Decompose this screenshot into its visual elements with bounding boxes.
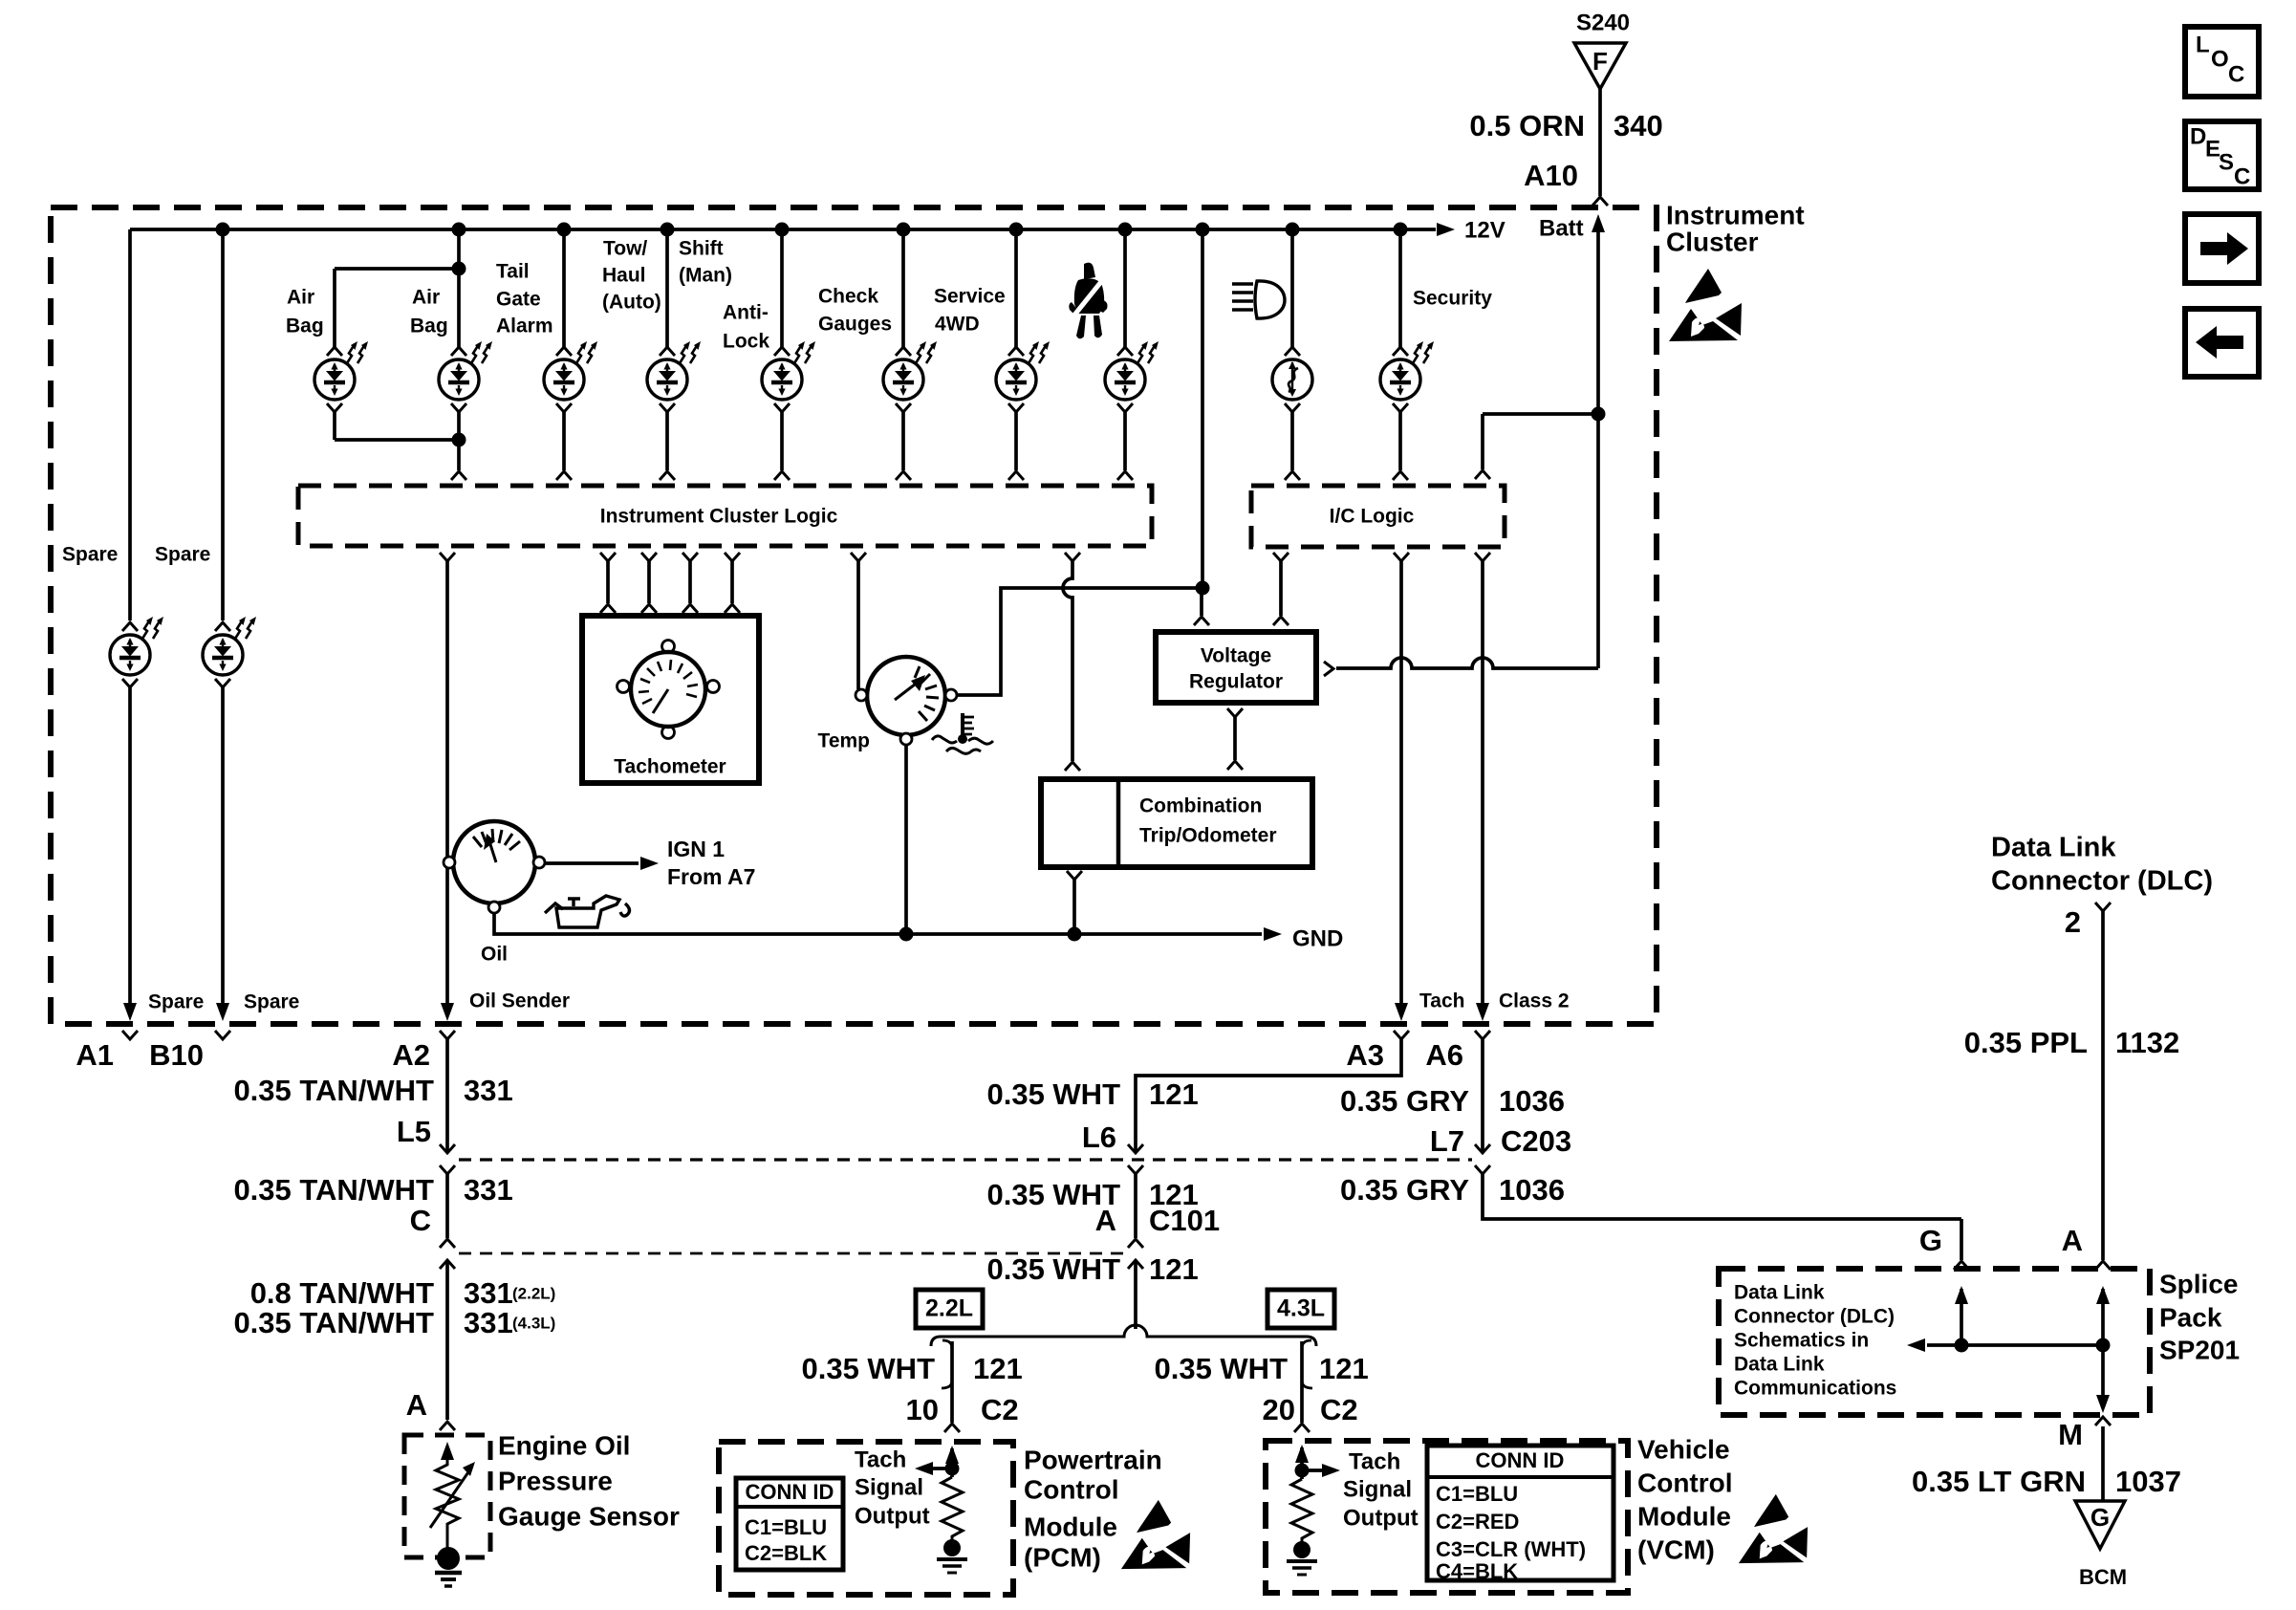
indicator LED Air Bag 2 (439, 359, 479, 400)
wire oil gauge to IGN 1 (545, 861, 639, 865)
connector chevron L7 at C203 (1475, 1144, 1490, 1153)
svg-text:CONN ID: CONN ID (746, 1480, 834, 1504)
indicator LED Security (1380, 359, 1420, 400)
arrow PCM entry (945, 1446, 959, 1464)
connector chevron splice G (1954, 1261, 1969, 1270)
svg-text:Regulator: Regulator (1189, 671, 1283, 693)
svg-text:4.3L: 4.3L (1277, 1295, 1325, 1322)
svg-text:Spare: Spare (155, 544, 210, 566)
wire High Beam lower (1290, 412, 1294, 470)
junction dot bus x=698 (661, 223, 675, 237)
svg-text:C1=BLU: C1=BLU (1436, 1482, 1518, 1506)
wire combination feed with hop (1063, 561, 1072, 761)
connector chevron combination feed bottom (1065, 762, 1080, 771)
svg-text:Instrument Cluster Logic: Instrument Cluster Logic (600, 506, 838, 528)
arrow into Batt pin (1592, 214, 1605, 232)
wire Anti-Lock upper (780, 229, 784, 347)
junction dot bus x=945 (897, 223, 911, 237)
legend box LOC (2185, 27, 2259, 97)
svg-text:Anti-: Anti- (723, 302, 769, 324)
indicator LED Tow/Haul (647, 359, 687, 400)
resistor PCM (942, 1477, 963, 1541)
junction dot VR feed (1196, 581, 1210, 596)
wire Check Gauges lower (901, 412, 905, 470)
junction dot splice A (2096, 1338, 2111, 1353)
wire I/C logic to VR (1279, 561, 1283, 616)
svg-text:(4.3L): (4.3L) (512, 1314, 555, 1332)
icon fasten seat belt (1069, 263, 1107, 339)
connector chevron M (2095, 1417, 2111, 1425)
arrow splice to DLC schematics (1907, 1338, 1925, 1352)
wire 0.35 PPL 1132 (2101, 911, 2105, 1260)
wire VCM tach branch (1300, 1341, 1304, 1423)
wire tach output (1399, 561, 1403, 1004)
junction dot PCM tach signal (945, 1462, 960, 1476)
connector chevron tach stub 636 top (600, 553, 616, 561)
arrow tach exit A3 (1395, 1003, 1408, 1021)
connector chevron combination ground stub (1067, 871, 1082, 880)
wire Fasten Belts lower (1123, 412, 1127, 470)
tachometer gauge (617, 641, 720, 739)
arrow VCM entry (1295, 1445, 1309, 1463)
connector C101 dashed line (459, 1252, 1126, 1255)
svg-text:Module: Module (1024, 1512, 1117, 1541)
svg-text:(VCM): (VCM) (1637, 1534, 1715, 1564)
svg-text:C4=BLK: C4=BLK (1436, 1559, 1518, 1583)
wire 0.35 LT GRN 1037 (2101, 1426, 2105, 1501)
wire Fasten Belts upper (1123, 229, 1127, 347)
svg-text:Batt: Batt (1539, 215, 1584, 241)
arrow IGN 1 (640, 857, 659, 870)
svg-text:20: 20 (1263, 1393, 1295, 1426)
svg-text:B10: B10 (149, 1038, 204, 1072)
wire TAN/WHT to sensor (445, 1260, 449, 1420)
wire temp gauge feed (856, 561, 860, 689)
svg-text:Pressure: Pressure (498, 1466, 613, 1495)
splice pack SP201 dashed box (1719, 1269, 2150, 1415)
svg-text:Oil Sender: Oil Sender (469, 990, 570, 1012)
wire temp gauge to ground rail (904, 745, 908, 934)
svg-text:Connector (DLC): Connector (DLC) (1734, 1306, 1895, 1328)
wire Tow/Haul lower (665, 412, 669, 470)
connector chevron C at C101 (440, 1239, 455, 1248)
svg-text:I/C Logic: I/C Logic (1330, 506, 1415, 528)
legend box DESC (2185, 121, 2259, 189)
svg-text:Temp: Temp (818, 730, 870, 752)
wire tach stub 636 (606, 561, 610, 603)
wire tach stub 722 (688, 561, 692, 603)
svg-text:1132: 1132 (2115, 1026, 2179, 1059)
svg-text:4WD: 4WD (935, 314, 980, 336)
svg-text:A: A (406, 1388, 427, 1422)
svg-text:331: 331 (464, 1074, 513, 1107)
svg-text:Control: Control (1024, 1474, 1119, 1504)
connector chevron oil sender top (440, 553, 455, 561)
svg-text:1036: 1036 (1499, 1084, 1565, 1118)
svg-text:0.35 WHT: 0.35 WHT (1154, 1352, 1288, 1385)
svg-text:C101: C101 (1149, 1204, 1220, 1237)
svg-text:(2.2L): (2.2L) (512, 1284, 555, 1302)
svg-text:Bag: Bag (286, 315, 324, 337)
icon oil can (545, 896, 629, 927)
wire Tail Gate Alarm lower (562, 412, 566, 470)
junction dot bus x=480 (452, 223, 466, 237)
wire Service 4WD lower (1014, 412, 1018, 470)
svg-text:C3=CLR (WHT): C3=CLR (WHT) (1436, 1537, 1586, 1561)
wire Anti-Lock lower (780, 412, 784, 470)
connector chevron VR top left (1194, 617, 1209, 625)
svg-text:Vehicle: Vehicle (1637, 1434, 1730, 1464)
connector chevron DLC pin 2 (2095, 903, 2111, 911)
wire 0.35 GRY 1036 to splice pack (1483, 1174, 1961, 1219)
svg-text:L: L (2196, 32, 2210, 57)
svg-text:Alarm: Alarm (496, 315, 553, 337)
arrow splice M out (2096, 1395, 2110, 1413)
svg-text:331: 331 (464, 1306, 513, 1339)
svg-text:0.35 TAN/WHT: 0.35 TAN/WHT (233, 1074, 434, 1107)
svg-text:Security: Security (1413, 288, 1492, 310)
svg-text:2: 2 (2065, 905, 2081, 939)
icon coolant thermometer (932, 713, 993, 753)
combination trip/odometer box (1041, 779, 1312, 867)
svg-text:CONN ID: CONN ID (1476, 1448, 1565, 1472)
svg-text:G: G (1919, 1224, 1942, 1257)
svg-text:M: M (2058, 1418, 2083, 1451)
wire Air Bag 2 lower (457, 412, 461, 470)
tag 4.3L (1267, 1290, 1334, 1328)
connector chevron VR top right (1273, 617, 1289, 625)
svg-text:Air: Air (412, 287, 440, 309)
svg-text:GND: GND (1292, 925, 1343, 951)
variable resistor oil pressure sensor (436, 1460, 459, 1549)
engine oil pressure gauge sensor dashed box (404, 1435, 490, 1557)
svg-text:Output: Output (855, 1503, 930, 1529)
connector chevron I/C bottom left (1273, 553, 1289, 561)
junction dot bus x=1177 (1118, 223, 1133, 237)
svg-text:L5: L5 (397, 1115, 431, 1148)
svg-text:L7: L7 (1430, 1124, 1464, 1158)
svg-text:331: 331 (464, 1173, 513, 1207)
svg-text:Connector (DLC): Connector (DLC) (1991, 866, 2213, 897)
svg-text:0.35 WHT: 0.35 WHT (801, 1352, 935, 1385)
wire VCM tach signal (1302, 1469, 1323, 1472)
svg-text:Control: Control (1637, 1468, 1733, 1497)
svg-text:C2: C2 (1320, 1393, 1358, 1426)
wire Tow/Haul upper (665, 229, 669, 347)
svg-text:0.35 LT GRN: 0.35 LT GRN (1912, 1465, 2086, 1498)
wire spare 1 lower (128, 687, 132, 1004)
indicator LED Air Bag 1 (314, 359, 355, 400)
svg-text:12V: 12V (1464, 217, 1505, 243)
wire VCM internal (1300, 1447, 1304, 1479)
svg-text:Shift: Shift (679, 238, 724, 260)
legend box arrow left (2185, 309, 2259, 377)
svg-text:0.5 ORN: 0.5 ORN (1469, 109, 1585, 142)
svg-text:A: A (2062, 1224, 2083, 1257)
arrow splice A in (2096, 1286, 2110, 1304)
junction dot air bag top (452, 262, 466, 276)
connector chevron class2 out top (1475, 553, 1490, 561)
junction dot bus x=1352 (1286, 223, 1300, 237)
connector C203 dashed line (459, 1158, 1472, 1161)
wire Security upper (1398, 229, 1402, 347)
ground VCM (1293, 1541, 1310, 1558)
svg-text:Oil: Oil (481, 944, 508, 966)
wire splice G internal (1960, 1289, 1963, 1345)
svg-text:0.35 TAN/WHT: 0.35 TAN/WHT (233, 1173, 434, 1207)
svg-text:SP201: SP201 (2159, 1335, 2240, 1364)
arrow tach signal output VCM (1322, 1464, 1340, 1477)
wire temp to voltage regulator (957, 588, 1202, 695)
wire Service 4WD upper (1014, 229, 1018, 347)
svg-text:Communications: Communications (1734, 1378, 1896, 1400)
svg-text:From A7: From A7 (667, 864, 755, 889)
wire Air Bag 1 to Air Bag 2 top jog (335, 267, 459, 271)
junction dot air bag bottom (452, 433, 466, 447)
svg-text:Spare: Spare (148, 991, 204, 1013)
svg-text:S: S (2219, 149, 2234, 175)
svg-text:A1: A1 (76, 1038, 114, 1072)
svg-text:C203: C203 (1501, 1124, 1571, 1158)
junction dot bus x=590 (557, 223, 572, 237)
svg-text:(PCM): (PCM) (1024, 1542, 1101, 1572)
svg-text:C2=BLK: C2=BLK (745, 1541, 827, 1565)
connector chevron temp stub (851, 553, 866, 561)
wire Check Gauges upper (901, 229, 905, 347)
junction dot bus x=1258 (1196, 223, 1210, 237)
wire down to I/C logic top (1481, 414, 1484, 469)
wire oil sender (445, 561, 449, 1004)
svg-text:Output: Output (1343, 1505, 1419, 1531)
svg-text:Tail: Tail (496, 261, 530, 283)
svg-text:O: O (2211, 46, 2229, 72)
wire 0.35 WHT 121 lower (1134, 1260, 1137, 1329)
wire tap to I/C logic (1483, 412, 1598, 416)
wire split brace 2.2L/4.3L (931, 1325, 1316, 1346)
svg-text:S240: S240 (1576, 10, 1630, 35)
svg-text:C: C (2234, 163, 2250, 189)
indicator LED Service 4WD (996, 359, 1036, 400)
arrow sensor entry (441, 1442, 454, 1460)
svg-text:Haul: Haul (602, 265, 646, 287)
wire 0.35 TAN/WHT 331 upper (445, 1039, 449, 1151)
svg-text:Pack: Pack (2159, 1302, 2222, 1332)
svg-text:10: 10 (906, 1393, 939, 1426)
arrow oil sender exit (441, 1003, 454, 1021)
connector chevron L5 at C203 (440, 1144, 455, 1153)
indicator LED Fasten Belts (1105, 359, 1145, 400)
wire High Beam upper (1290, 229, 1294, 347)
indicator LED Check Gauges (883, 359, 923, 400)
svg-text:C2=RED: C2=RED (1436, 1510, 1519, 1534)
svg-text:Service: Service (934, 286, 1006, 308)
svg-text:Bag: Bag (410, 315, 448, 337)
svg-text:L6: L6 (1082, 1120, 1116, 1154)
svg-text:Schematics in: Schematics in (1734, 1330, 1869, 1352)
svg-text:A6: A6 (1425, 1038, 1463, 1072)
svg-text:Signal: Signal (855, 1474, 923, 1500)
legend box arrow right (2185, 214, 2259, 283)
arrow spare 2 exit (216, 1003, 229, 1021)
connector chevron A2 (440, 1031, 455, 1039)
svg-text:Tow/: Tow/ (603, 238, 647, 260)
wire Security lower (1398, 412, 1402, 470)
svg-text:(Man): (Man) (679, 265, 732, 287)
svg-text:C: C (410, 1204, 431, 1237)
svg-text:Gate: Gate (496, 289, 541, 311)
svg-text:Engine Oil: Engine Oil (498, 1430, 630, 1460)
svg-text:Air: Air (287, 287, 314, 309)
junction dot bus x=233 (216, 223, 230, 237)
svg-text:Check: Check (818, 286, 878, 308)
connector chevron tach out top (1394, 553, 1409, 561)
junction dot bus x=818 (775, 223, 790, 237)
junction dot bus x=1063 (1009, 223, 1024, 237)
connector chevron combination feed top (1065, 553, 1080, 561)
connector chevron A3 (1394, 1031, 1409, 1039)
svg-text:121: 121 (1149, 1077, 1199, 1111)
wire 0.35 WHT 121 upper (1136, 1039, 1401, 1151)
svg-text:0.35 PPL: 0.35 PPL (1964, 1026, 2088, 1059)
wire bus to VR (1201, 229, 1204, 588)
svg-text:(Auto): (Auto) (602, 292, 661, 314)
junction dot VCM tach signal (1295, 1464, 1310, 1478)
svg-text:Lock: Lock (723, 331, 769, 353)
arrow class 2 exit A6 (1476, 1003, 1489, 1021)
svg-text:1037: 1037 (2115, 1465, 2181, 1498)
Instrument Cluster dashed box (51, 207, 1657, 1024)
svg-text:331: 331 (464, 1276, 513, 1310)
icon ESD VCM (1739, 1494, 1808, 1563)
indicator LED spare 1 (Spare) (110, 635, 150, 675)
connector chevron A6 (1475, 1031, 1490, 1039)
icon ESD PCM (1121, 1500, 1190, 1569)
svg-text:A2: A2 (392, 1038, 430, 1072)
wire combination to ground rail (1072, 880, 1076, 934)
svg-text:Cluster: Cluster (1666, 227, 1759, 256)
wire splice A internal (2101, 1289, 2105, 1396)
tag 2.2L (916, 1290, 983, 1328)
svg-text:Tachometer: Tachometer (614, 756, 726, 778)
junction dot splice G (1955, 1338, 1969, 1353)
temp gauge (856, 657, 957, 745)
connector chevron A at C101 (1128, 1239, 1143, 1248)
oil gauge (444, 821, 545, 913)
wire class 2 (1481, 561, 1484, 1004)
svg-text:C2: C2 (981, 1393, 1019, 1426)
arrow splice G in (1955, 1286, 1968, 1304)
connector chevron VCM entry (1294, 1424, 1310, 1432)
wire tach stub 766 (730, 561, 734, 603)
svg-text:0.35 GRY: 0.35 GRY (1340, 1173, 1469, 1207)
svg-text:Instrument: Instrument (1666, 200, 1805, 229)
wire VR output to Batt with hops (1336, 658, 1598, 668)
wire ground rail (494, 913, 1262, 934)
Instrument Cluster Logic dashed box (298, 486, 1152, 546)
connector chevron I/C logic top right (1475, 470, 1490, 479)
powertrain control module dashed box (719, 1442, 1013, 1595)
arrow GND (1264, 927, 1282, 941)
wire Air Bag 1 lower (333, 412, 336, 440)
wire splice G drop (1960, 1219, 1963, 1260)
wire Air Bag 1 upper (333, 269, 336, 347)
svg-text:0.8 TAN/WHT: 0.8 TAN/WHT (250, 1276, 434, 1310)
svg-text:2.2L: 2.2L (925, 1295, 973, 1322)
wire VR top left pin (1200, 588, 1203, 616)
svg-text:Data Link: Data Link (1734, 1354, 1825, 1376)
tachometer box (582, 616, 759, 783)
connector chevron A10 (1592, 197, 1608, 206)
wire PCM internal (950, 1448, 954, 1477)
junction dot Batt/Class2 tap (1592, 407, 1606, 422)
svg-text:A: A (1095, 1204, 1116, 1237)
junction dot bus x=1465 (1394, 223, 1408, 237)
svg-text:121: 121 (1319, 1352, 1369, 1385)
indicator LED Tail Gate Alarm (544, 359, 584, 400)
svg-text:Splice: Splice (2159, 1269, 2238, 1298)
svg-text:Signal: Signal (1343, 1476, 1412, 1502)
arrow tach signal output PCM (915, 1462, 933, 1475)
svg-text:Tach: Tach (1419, 990, 1464, 1012)
wire spare 2 upper (221, 229, 225, 620)
svg-text:Gauge Sensor: Gauge Sensor (498, 1501, 680, 1531)
svg-text:1036: 1036 (1499, 1173, 1565, 1207)
svg-text:Spare: Spare (244, 991, 299, 1013)
I/C Logic dashed box (1251, 486, 1505, 547)
svg-text:Combination: Combination (1139, 795, 1262, 817)
wire VR to combination (1233, 717, 1237, 760)
svg-text:Powertrain: Powertrain (1024, 1445, 1162, 1474)
svg-text:Module: Module (1637, 1501, 1731, 1531)
voltage regulator box (1156, 632, 1316, 703)
indicator LED High Beam (1272, 359, 1312, 400)
svg-text:D: D (2190, 123, 2206, 149)
svg-text:Gauges: Gauges (818, 314, 892, 336)
wire Tail Gate Alarm upper (562, 229, 566, 347)
ground PCM (943, 1539, 961, 1556)
wire Air Bag 1 to Air Bag 2 bottom jog (335, 438, 459, 442)
svg-text:0.35 WHT: 0.35 WHT (986, 1252, 1120, 1286)
svg-text:Class 2: Class 2 (1499, 990, 1570, 1012)
svg-text:IGN 1: IGN 1 (667, 837, 725, 861)
icon ESD Instrument Cluster (1669, 269, 1742, 341)
wire splice crossbar (1927, 1343, 2103, 1347)
connector chevron splice A (2095, 1261, 2111, 1270)
svg-text:Tach: Tach (855, 1447, 906, 1472)
svg-text:A3: A3 (1346, 1038, 1384, 1072)
svg-text:Voltage: Voltage (1201, 645, 1271, 667)
indicator LED Anti-Lock (762, 359, 802, 400)
wire PCM tach signal (931, 1467, 952, 1470)
wire PCM tach branch (950, 1341, 954, 1423)
svg-text:F: F (1592, 47, 1608, 76)
connector chevron VR output (1324, 662, 1333, 676)
wire spare 1 upper (128, 229, 132, 620)
vehicle control module dashed box (1266, 1441, 1628, 1593)
svg-text:Trip/Odometer: Trip/Odometer (1139, 825, 1277, 847)
connector chevron L6 at C203 (1128, 1144, 1143, 1153)
svg-text:Data Link: Data Link (1991, 833, 2116, 863)
svg-text:Data Link: Data Link (1734, 1282, 1825, 1304)
junction dot temp ground (899, 927, 914, 942)
wire 0.35 WHT 121 mid (1134, 1174, 1137, 1238)
svg-text:0.35 WHT: 0.35 WHT (986, 1077, 1120, 1111)
connector chevron tach stub 679 top (641, 553, 657, 561)
wire 0.35 TAN/WHT 331 mid (445, 1174, 449, 1238)
svg-text:BCM: BCM (2079, 1565, 2127, 1589)
svg-text:121: 121 (1149, 1252, 1199, 1286)
splice S240 triangle F (1574, 43, 1626, 89)
